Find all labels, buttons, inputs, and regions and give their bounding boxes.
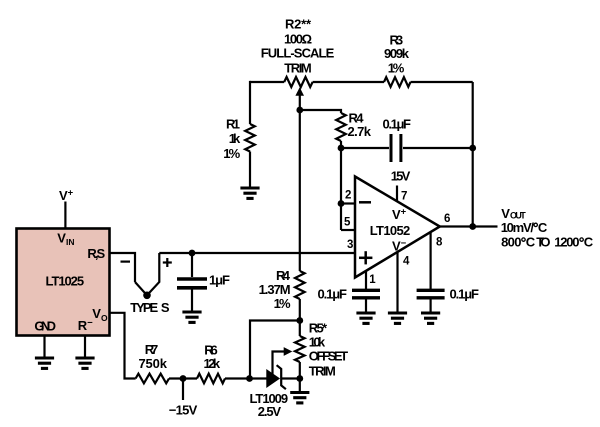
capacitor 0.1uF feedback bbox=[391, 134, 401, 162]
R7 label bbox=[138, 342, 167, 371]
node feedback-cap junction bbox=[469, 145, 476, 152]
VOUT label bbox=[501, 206, 526, 221]
wire VO down to bottom rail bbox=[110, 313, 136, 379]
R2 label bbox=[261, 17, 335, 76]
svg-text:R7: R7 bbox=[145, 342, 159, 357]
svg-text:C: C bbox=[526, 235, 536, 250]
resistor R4 2.7k bbox=[336, 113, 346, 141]
ground below R1 bbox=[240, 188, 259, 198]
svg-text:2.7k: 2.7k bbox=[348, 124, 372, 139]
V+ supply label bbox=[59, 188, 74, 204]
wire node to R5 bbox=[299, 321, 301, 337]
svg-text:15V: 15V bbox=[391, 169, 411, 184]
thermocouple plus label bbox=[163, 258, 172, 267]
R6 label bbox=[204, 342, 221, 371]
LT1025 R,S label bbox=[87, 246, 105, 261]
wire wiper node to R4 bbox=[300, 110, 341, 113]
pin 6 output wire bbox=[439, 225, 498, 227]
wire feedback vertical bbox=[472, 82, 474, 227]
R4 1.37M label bbox=[259, 268, 291, 311]
diode LT1009 bbox=[267, 365, 286, 389]
svg-text:OFFSET: OFFSET bbox=[309, 348, 348, 363]
svg-text:LT1025: LT1025 bbox=[46, 274, 85, 289]
wire top rail left segment bbox=[250, 81, 284, 83]
pin 1 label bbox=[369, 274, 376, 286]
op-amp plus sign bbox=[359, 251, 372, 264]
svg-text:4: 4 bbox=[403, 255, 410, 267]
svg-text:2: 2 bbox=[345, 190, 351, 202]
LT1025 VO label bbox=[92, 306, 108, 323]
wire V+ to LT1025 bbox=[64, 202, 66, 229]
wire pin 2 stub bbox=[341, 202, 356, 204]
pin 1 stub bbox=[365, 271, 367, 290]
svg-text:1%: 1% bbox=[274, 296, 291, 311]
resistor R4 1.37M bbox=[295, 271, 305, 299]
op-amp minus sign bbox=[359, 201, 371, 204]
ground pin 1 cap bbox=[356, 313, 375, 323]
svg-text:GND: GND bbox=[34, 319, 56, 334]
svg-text:1μF: 1μF bbox=[209, 273, 230, 288]
IC LT1025 body bbox=[17, 229, 110, 336]
resistor R3 bbox=[384, 77, 411, 87]
wire R7 to R6 bbox=[169, 377, 197, 379]
svg-text:S: S bbox=[161, 300, 170, 315]
R4 2.7k label bbox=[348, 110, 372, 139]
svg-text:12k: 12k bbox=[204, 356, 221, 371]
svg-text:R5*: R5* bbox=[309, 321, 328, 336]
R5 wiper arrow bbox=[273, 347, 293, 374]
pin 6 label bbox=[444, 213, 450, 225]
VOUT scale label bbox=[501, 220, 548, 235]
wire R4 bottom to node bbox=[340, 141, 342, 148]
wire R6 to LT1009 node bbox=[225, 377, 250, 379]
LT1009 label bbox=[250, 391, 289, 419]
wire LT1009 cathode to node bbox=[281, 377, 300, 379]
pin 3 wire bbox=[159, 252, 355, 254]
wire top-left corner down to R1 bbox=[250, 82, 251, 124]
node LT1009 anode bbox=[246, 375, 253, 382]
svg-text:3: 3 bbox=[347, 239, 353, 251]
svg-text:−15V: −15V bbox=[169, 402, 198, 417]
svg-text:1k: 1k bbox=[229, 131, 241, 146]
svg-text:0.1μF: 0.1μF bbox=[450, 286, 480, 301]
LT1025 VIN label bbox=[57, 230, 74, 247]
svg-text:C: C bbox=[584, 235, 594, 250]
VOUT range label bbox=[501, 235, 594, 250]
svg-text:800: 800 bbox=[501, 235, 521, 250]
node thermocouple junction bbox=[143, 292, 151, 300]
svg-text:5: 5 bbox=[344, 217, 351, 229]
svg-text:10mV/: 10mV/ bbox=[501, 220, 535, 235]
ground LT1025 R- bbox=[75, 358, 94, 368]
svg-text:1%: 1% bbox=[388, 60, 405, 75]
wire LT1025 GND pin bbox=[43, 336, 45, 358]
R5 label bbox=[309, 321, 348, 379]
svg-text:2.5V: 2.5V bbox=[258, 404, 282, 419]
svg-text:R4: R4 bbox=[349, 110, 365, 125]
node R4 bottom / inverting input bbox=[338, 145, 345, 152]
svg-text:TO: TO bbox=[536, 235, 550, 250]
LT1025 GND label bbox=[34, 319, 56, 334]
wire pin 2 to pin 5 bbox=[340, 204, 342, 231]
svg-text:TRIM: TRIM bbox=[284, 60, 312, 75]
ground pin 4 bbox=[388, 313, 407, 323]
node R5 bottom bbox=[296, 375, 303, 382]
resistor R1 bbox=[245, 124, 255, 152]
node R2 wiper bbox=[296, 107, 303, 114]
pin 3 label bbox=[347, 239, 353, 251]
svg-text:R2**: R2** bbox=[285, 17, 312, 32]
pin 7 label bbox=[401, 190, 407, 202]
0.1uF feedback label bbox=[383, 117, 412, 132]
thermocouple TYPE S bbox=[135, 253, 159, 295]
op-amp V+ label bbox=[392, 207, 407, 223]
svg-text:750k: 750k bbox=[138, 356, 167, 371]
svg-text:0.1μF: 0.1μF bbox=[383, 117, 412, 132]
ground LT1025 GND bbox=[35, 358, 54, 368]
node plus-input / 1uF bbox=[189, 250, 196, 257]
ground 1uF bbox=[182, 312, 201, 322]
0.1uF pin8 label bbox=[450, 286, 480, 301]
TYPE S label bbox=[130, 300, 170, 315]
pin 2 label bbox=[345, 190, 351, 202]
capacitor 0.1uF pin 8 bbox=[417, 290, 445, 313]
wire inverting node down to pin 2 bbox=[340, 148, 342, 204]
svg-text:TYPE: TYPE bbox=[130, 300, 158, 315]
wire wiper node down bbox=[299, 110, 301, 271]
thermocouple minus label bbox=[121, 261, 131, 263]
wire R4 1.37M to node bbox=[299, 299, 301, 321]
svg-text:6: 6 bbox=[444, 213, 450, 225]
LT1025 name bbox=[46, 274, 85, 289]
wire R1 to ground bbox=[249, 152, 251, 189]
LT1025 R- label bbox=[78, 318, 93, 334]
op-amp LT1052 triangle bbox=[355, 177, 440, 278]
svg-text:R1: R1 bbox=[226, 117, 240, 132]
svg-text:0.1μF: 0.1μF bbox=[318, 286, 348, 301]
pin 4 stub to ground bbox=[396, 252, 398, 314]
pin 7 supply stub bbox=[396, 186, 398, 203]
wire inverting node to cap bbox=[341, 147, 389, 149]
resistor R7 bbox=[136, 374, 169, 384]
wire R5 to node bbox=[299, 362, 301, 379]
node pin 2 bbox=[338, 200, 345, 207]
ground LT1009/R5 bbox=[290, 379, 309, 403]
wire anode node to LT1009 bbox=[250, 377, 268, 379]
1uF label bbox=[209, 273, 230, 288]
wire cap to feedback line bbox=[403, 147, 473, 149]
node -15V junction bbox=[180, 375, 187, 382]
node R4/R5 junction bbox=[296, 317, 303, 324]
R1 label bbox=[223, 117, 241, 161]
pin 8 stub bbox=[430, 232, 432, 290]
wire top rail right segment bbox=[411, 81, 473, 83]
potentiometer R5 body bbox=[295, 336, 305, 362]
svg-text:R4: R4 bbox=[276, 268, 291, 283]
resistor R6 bbox=[197, 374, 225, 384]
svg-text:C: C bbox=[538, 220, 548, 235]
pin 5 label bbox=[344, 217, 351, 229]
wire pin 5 stub bbox=[341, 229, 356, 231]
wire LT1025 R- pin bbox=[84, 336, 86, 358]
svg-text:1: 1 bbox=[369, 274, 376, 286]
pin 8 label bbox=[436, 237, 443, 249]
pin 4 label bbox=[403, 255, 410, 267]
svg-text:FULL-SCALE: FULL-SCALE bbox=[261, 46, 335, 61]
wire offset link bbox=[250, 321, 300, 379]
svg-text:909k: 909k bbox=[384, 46, 410, 61]
capacitor 0.1uF pin 1 bbox=[352, 290, 380, 313]
svg-text:R,S: R,S bbox=[87, 246, 105, 261]
0.1uF pin1 label bbox=[318, 286, 348, 301]
svg-text:LT1052: LT1052 bbox=[370, 223, 411, 238]
svg-text:100Ω: 100Ω bbox=[284, 31, 312, 46]
op-amp V- label bbox=[392, 238, 407, 254]
capacitor 1uF bbox=[177, 253, 207, 312]
svg-text:1.37M: 1.37M bbox=[259, 282, 291, 297]
svg-text:1200: 1200 bbox=[554, 235, 579, 250]
wire R,S to thermocouple bbox=[110, 253, 136, 282]
ground pin 8 cap bbox=[421, 313, 440, 323]
node output junction bbox=[469, 223, 476, 230]
wire top rail middle segment bbox=[313, 81, 384, 83]
svg-text:TRIM: TRIM bbox=[309, 363, 336, 378]
15V label bbox=[391, 169, 411, 184]
svg-text:7: 7 bbox=[401, 190, 407, 202]
-15V label bbox=[169, 402, 198, 417]
wire to -15V bbox=[182, 379, 184, 401]
svg-text:8: 8 bbox=[436, 237, 443, 249]
svg-text:10k: 10k bbox=[309, 334, 326, 349]
svg-text:1%: 1% bbox=[223, 146, 240, 161]
potentiometer R2 body bbox=[284, 77, 312, 87]
R2 wiper arrow bbox=[295, 87, 304, 110]
R3 label bbox=[384, 32, 410, 75]
op-amp name LT1052 bbox=[370, 223, 411, 238]
